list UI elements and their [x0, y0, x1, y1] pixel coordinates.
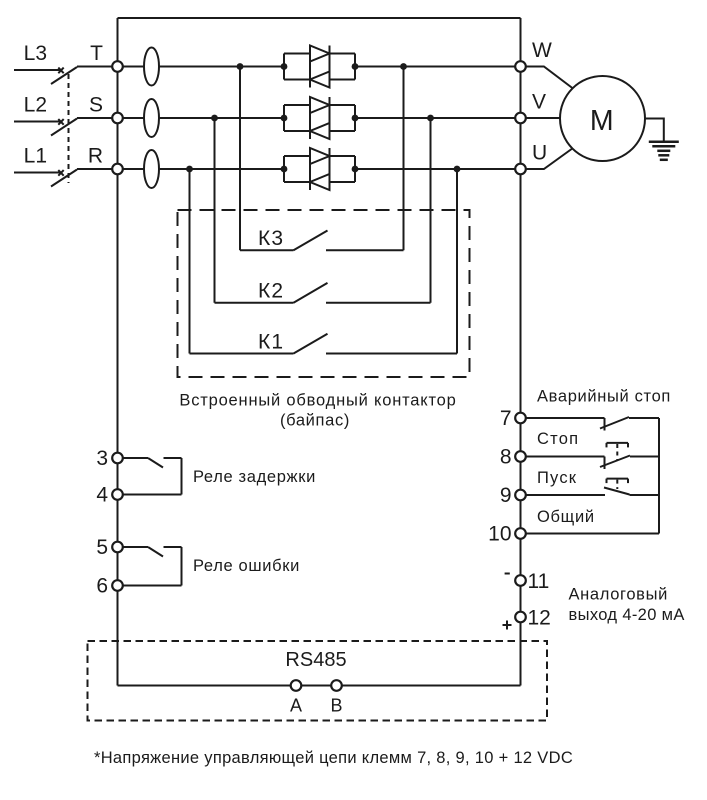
svg-text:3: 3 — [96, 447, 108, 470]
breaker linkage dashed — [68, 74, 70, 183]
choke T phase — [144, 48, 159, 86]
svg-text:L1: L1 — [24, 145, 47, 168]
bypass dashed box — [178, 210, 470, 377]
terminal 5 — [112, 542, 123, 553]
stop button switch row 8 — [526, 443, 660, 469]
terminal 8 — [515, 451, 526, 462]
svg-text:U: U — [532, 142, 547, 165]
ground — [649, 142, 679, 160]
wire phase T row — [118, 66, 285, 68]
choke S phase — [144, 99, 159, 137]
contactor K2 — [215, 118, 431, 303]
svg-text:Общий: Общий — [537, 508, 595, 526]
wire W to motor — [526, 67, 574, 89]
svg-text:L3: L3 — [24, 42, 47, 65]
svg-text:К1: К1 — [258, 331, 284, 354]
svg-text:W: W — [532, 39, 552, 62]
breaker QF pole L3 — [14, 67, 113, 85]
terminal S — [112, 113, 123, 124]
thyristor pair VS2 (S phase) — [284, 97, 355, 139]
svg-text:6: 6 — [96, 575, 108, 598]
relay delay contact 3-4 — [123, 458, 182, 495]
terminal 9 — [515, 490, 526, 501]
svg-text:M: M — [590, 105, 614, 137]
svg-text:7: 7 — [500, 407, 512, 430]
thyristor pair VS1 (T phase) — [284, 46, 355, 88]
common wire row 10 — [526, 533, 660, 535]
control bus right — [658, 418, 660, 534]
terminal 11 — [515, 575, 526, 586]
svg-text:4: 4 — [96, 484, 108, 507]
svg-text:12: 12 — [528, 607, 551, 630]
junction dots bypass taps left — [237, 63, 244, 70]
svg-text:Аварийный стоп: Аварийный стоп — [537, 388, 671, 406]
terminal U — [515, 164, 526, 175]
terminal W — [515, 61, 526, 72]
start button switch row 9 — [526, 479, 660, 495]
junction dots thyristor R — [281, 166, 288, 173]
contactor K1 — [190, 169, 458, 354]
junction dots thyristor T — [281, 63, 288, 70]
choke R phase — [144, 150, 159, 188]
terminal B — [331, 680, 342, 691]
svg-text:А: А — [290, 696, 302, 716]
svg-text:В: В — [330, 696, 342, 716]
contactor K3 — [240, 67, 404, 251]
svg-text:5: 5 — [96, 536, 108, 559]
terminal V — [515, 113, 526, 124]
junction dots thyristor S — [281, 115, 288, 122]
RS485 dashed box — [88, 641, 548, 721]
wire phase R row — [118, 168, 285, 170]
wire motor to ground — [645, 119, 664, 142]
svg-text:выход 4-20 мА: выход 4-20 мА — [569, 606, 685, 624]
terminal 3 — [112, 453, 123, 464]
thyristor pair VS3 (R phase) — [284, 148, 355, 190]
svg-text:R: R — [88, 145, 103, 168]
breaker QF pole L1 — [14, 169, 113, 187]
wire phase S row — [118, 117, 285, 119]
svg-text:T: T — [90, 42, 103, 65]
svg-text:К3: К3 — [258, 227, 284, 250]
plus sign terminal 12 — [503, 624, 512, 626]
terminal 7 — [515, 413, 526, 424]
svg-text:Аналоговый: Аналоговый — [569, 586, 668, 604]
svg-text:Встроенный обводный контактор: Встроенный обводный контактор — [179, 392, 456, 410]
wire main enclosure right edge — [520, 18, 522, 686]
svg-text:V: V — [532, 91, 546, 114]
terminal 12 — [515, 612, 526, 623]
wire V to motor — [526, 117, 561, 119]
wire main enclosure top edge — [118, 17, 521, 19]
relay fault contact 5-6 — [123, 547, 182, 586]
motor M — [560, 76, 645, 161]
wire main enclosure left edge — [117, 18, 119, 686]
junction dots bypass taps right — [400, 63, 407, 70]
minus sign terminal 11 — [505, 573, 510, 575]
svg-text:S: S — [89, 94, 103, 117]
wire U to motor — [526, 148, 574, 169]
svg-text:10: 10 — [488, 523, 511, 546]
wire RS485 bottom — [118, 685, 521, 687]
emergency stop switch row 7 — [526, 417, 660, 431]
svg-text:Стоп: Стоп — [537, 430, 579, 448]
terminal 6 — [112, 580, 123, 591]
breaker QF pole L2 — [14, 118, 113, 136]
svg-text:К2: К2 — [258, 280, 284, 303]
terminal 4 — [112, 489, 123, 500]
svg-text:Реле задержки: Реле задержки — [193, 468, 316, 486]
terminal T — [112, 61, 123, 72]
terminal A — [291, 680, 302, 691]
svg-text:(байпас): (байпас) — [280, 412, 350, 430]
svg-text:11: 11 — [528, 570, 550, 593]
svg-text:8: 8 — [500, 446, 512, 469]
terminal 10 — [515, 528, 526, 539]
svg-text:9: 9 — [500, 484, 512, 507]
svg-text:L2: L2 — [24, 94, 47, 117]
terminal R — [112, 164, 123, 175]
svg-text:Пуск: Пуск — [537, 469, 577, 487]
svg-text:RS485: RS485 — [285, 649, 346, 671]
svg-text:*Напряжение управляющей цепи к: *Напряжение управляющей цепи клемм 7, 8,… — [94, 749, 573, 767]
svg-text:Реле ошибки: Реле ошибки — [193, 557, 300, 575]
